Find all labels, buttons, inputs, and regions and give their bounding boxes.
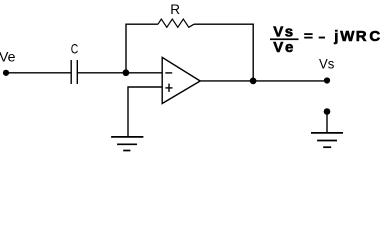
svg-text:C: C xyxy=(369,28,380,45)
svg-text:j: j xyxy=(333,28,338,45)
svg-text:R: R xyxy=(170,1,180,17)
svg-text:Vs: Vs xyxy=(319,56,334,72)
svg-text:Ve: Ve xyxy=(273,39,296,56)
svg-text:C: C xyxy=(71,40,79,56)
svg-text:R: R xyxy=(356,28,367,45)
svg-text:Ve: Ve xyxy=(0,48,16,64)
svg-text:W: W xyxy=(340,28,355,45)
svg-text:Vs: Vs xyxy=(273,23,294,40)
